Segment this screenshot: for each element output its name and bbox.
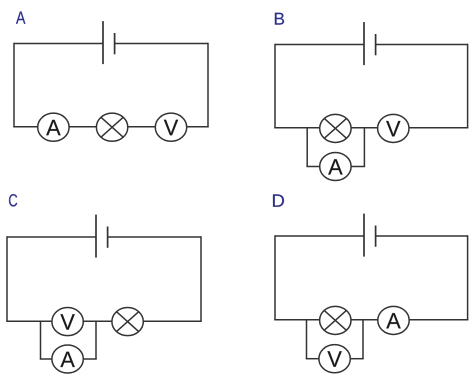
wire: circuit B bottom segment 3 <box>409 127 468 129</box>
wire: circuit C parallel-branch left horizontal <box>40 358 52 360</box>
circuit label D <box>273 194 284 206</box>
cell (battery) B: long plate <box>363 22 365 65</box>
ammeter (circuit A) <box>38 113 69 141</box>
wire: circuit B right side <box>467 44 469 128</box>
wire: circuit D bottom segment 3 <box>409 319 468 321</box>
cell (battery) A: long plate <box>102 21 104 64</box>
wire: circuit B top-left segment <box>275 44 364 46</box>
cell (battery) C: long plate <box>95 215 97 258</box>
lamp (circuit C) <box>112 308 143 336</box>
wire: circuit B left side <box>274 44 276 128</box>
wire: circuit B parallel-branch right horizontal <box>351 166 365 168</box>
voltmeter (circuit D, parallel branch) <box>319 345 350 373</box>
wire: circuit A left side <box>13 43 15 127</box>
wire: circuit B parallel-branch right drop <box>363 128 365 167</box>
wire: circuit B top-right segment <box>376 44 468 46</box>
wire: circuit B parallel-branch left horizontal <box>306 166 319 168</box>
circuit label A <box>16 11 25 23</box>
ammeter (circuit D) <box>378 306 409 334</box>
wire: circuit A bottom segment 4 <box>187 126 209 128</box>
wire: circuit C bottom segment 3 <box>143 320 201 322</box>
voltmeter (circuit B) <box>378 114 409 142</box>
wire: circuit D parallel-branch right drop <box>362 320 364 359</box>
wire: circuit A bottom segment 2 <box>69 126 96 128</box>
cell (battery) B: short plate <box>375 34 377 55</box>
wire: circuit C top-right segment <box>108 236 201 238</box>
wire: circuit C parallel-branch right drop <box>95 321 97 359</box>
cell (battery) D: short plate <box>375 226 377 247</box>
ammeter (circuit B, parallel branch) <box>320 152 351 180</box>
circuit label B <box>275 13 284 25</box>
wire: circuit C parallel-branch right horizontal <box>83 358 96 360</box>
wire: circuit C bottom segment 1 <box>6 320 52 322</box>
wire: circuit C top-left segment <box>7 236 96 238</box>
voltmeter (circuit C) <box>52 308 83 336</box>
wire: circuit C parallel-branch left drop <box>40 321 42 359</box>
lamp (circuit B) <box>320 114 351 142</box>
voltmeter (circuit A) <box>155 113 186 141</box>
wire: circuit A bottom segment 1 <box>13 126 37 128</box>
wire: circuit B parallel-branch left drop <box>306 128 308 167</box>
wire: circuit D parallel-branch left horizontal <box>306 358 319 360</box>
cell (battery) D: long plate <box>363 214 365 257</box>
wire: circuit D bottom segment 2 <box>351 319 378 321</box>
wire: circuit B bottom segment 2 <box>351 127 378 129</box>
wire: circuit D top-right segment <box>376 235 468 237</box>
wire: circuit D bottom segment 1 <box>274 319 319 321</box>
wire: circuit A top-left segment <box>14 43 103 45</box>
cell (battery) C: short plate <box>107 227 109 248</box>
wire: circuit A top-right segment <box>115 43 208 45</box>
circuit label C <box>9 194 17 206</box>
lamp (circuit D) <box>320 306 351 334</box>
wire: circuit D top-left segment <box>275 235 364 237</box>
wire: circuit C bottom segment 2 <box>83 320 112 322</box>
wire: circuit D parallel-branch right horizontal <box>350 358 363 360</box>
lamp (circuit A) <box>96 113 127 141</box>
wire: circuit A bottom segment 3 <box>128 126 156 128</box>
wire: circuit D right side <box>467 235 469 320</box>
wire: circuit B bottom segment 1 <box>274 127 319 129</box>
cell (battery) A: short plate <box>114 33 116 54</box>
ammeter (circuit C, parallel branch) <box>52 345 83 373</box>
wire: circuit C right side <box>200 236 202 321</box>
wire: circuit A right side <box>207 43 209 127</box>
wire: circuit D left side <box>274 235 276 320</box>
wire: circuit C left side <box>6 236 8 321</box>
wire: circuit D parallel-branch left drop <box>306 320 308 359</box>
